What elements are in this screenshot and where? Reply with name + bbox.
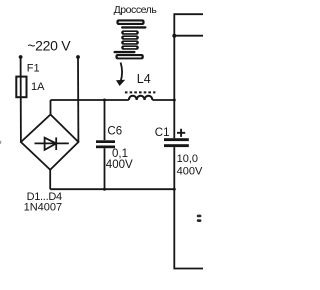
svg-text:C6: C6: [107, 126, 122, 138]
svg-text:10,0: 10,0: [177, 153, 198, 165]
choke pictorial: winding turns: [121, 30, 139, 49]
fuse F1: [16, 77, 26, 98]
node: AC input left terminal: [19, 55, 23, 59]
capacitor C6 bottom lead: [104, 148, 106, 189]
node: C6 bottom junction: [103, 188, 106, 191]
choke pictorial: bottom flange: [115, 54, 143, 59]
inductor L4 humps: [129, 96, 153, 100]
svg-text:0,1: 0,1: [112, 148, 128, 160]
node: right rail / bottom bus junction: [173, 188, 176, 191]
svg-text:Дроссель: Дроссель: [114, 4, 158, 16]
wire: second top line to right edge: [174, 35, 203, 37]
capacitor C1 plates: [164, 138, 189, 147]
dashed core line above L4: [125, 91, 155, 93]
choke pictorial: top lead bar: [121, 26, 147, 28]
cut-off mark at right edge: [197, 215, 202, 222]
diode symbol inside bridge: [35, 137, 69, 150]
polarity + mark of C1: [177, 129, 185, 137]
wire: right rail below C1 down and out to right edge: [174, 147, 203, 268]
wire: bridge - output stub and bottom bus: [50, 170, 174, 189]
svg-text:L4: L4: [137, 72, 151, 86]
svg-text:400V: 400V: [177, 165, 203, 177]
wire: right AC lead down to bridge right corner (crosses bus): [77, 57, 79, 142]
node: AC input right terminal: [76, 55, 80, 59]
wire: left AC lead through fuse down to bridge left corner: [20, 57, 22, 142]
wire: top bus from L4 to right rail: [152, 99, 174, 101]
node: bus / right-rail junction: [173, 99, 176, 102]
cut-off smudge at left edge: [0, 141, 1, 144]
svg-text:1A: 1A: [31, 81, 45, 93]
svg-text:F1: F1: [27, 62, 40, 74]
choke pictorial: bottom lead bar: [114, 51, 136, 53]
svg-text:400V: 400V: [106, 159, 133, 171]
arrow from choke drawing to L4: [116, 63, 125, 87]
svg-text:~220 V: ~220 V: [27, 37, 71, 53]
node: junction on right rail at second top line: [172, 34, 176, 38]
svg-text:1N4007: 1N4007: [24, 201, 63, 213]
wire: right rail vertical with top corner to edge: [174, 14, 203, 138]
node: C6 top junction: [103, 99, 106, 102]
wire: bridge + output stub and top bus to L4: [51, 100, 129, 115]
choke pictorial drawing: top flange: [116, 19, 144, 25]
capacitor C6 plates: [96, 140, 115, 148]
capacitor C6 top lead: [104, 100, 106, 140]
bridge rectifier D1...D4 diamond: [21, 115, 79, 170]
svg-text:C1: C1: [155, 127, 170, 139]
